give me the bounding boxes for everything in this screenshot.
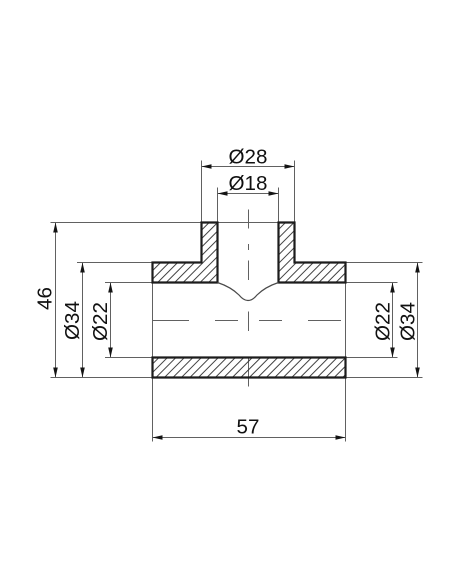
dimension line 46 bbox=[55, 223, 57, 378]
centerline horizontal (run axis) bbox=[153, 320, 342, 322]
dimension line Ø22 right bbox=[392, 283, 394, 358]
extension line 57 right bbox=[345, 378, 347, 442]
dimension line Ø28 bbox=[202, 166, 295, 168]
right end face edge (bore opening, thin) bbox=[345, 283, 347, 358]
extension line Ø22 right top bbox=[346, 282, 398, 284]
dimension line Ø34 left bbox=[82, 263, 84, 378]
extension line 57 left bbox=[152, 378, 154, 442]
extension line Ø28 right bbox=[294, 161, 296, 223]
extension line Ø28 left bbox=[201, 161, 203, 223]
left end face edge (bore opening, thin) bbox=[152, 283, 154, 358]
extension line Ø22 left bottom bbox=[105, 357, 153, 359]
extension line top (46 dim, across branch top) bbox=[51, 222, 295, 224]
svg-text:Ø28: Ø28 bbox=[229, 146, 268, 169]
svg-text:Ø34: Ø34 bbox=[61, 301, 84, 340]
branch bore funnel curve bbox=[218, 283, 279, 301]
svg-text:46: 46 bbox=[34, 287, 57, 310]
tee body left wall section (hatched L) bbox=[153, 223, 218, 283]
svg-text:Ø34: Ø34 bbox=[397, 302, 420, 341]
svg-text:57: 57 bbox=[237, 416, 260, 439]
tee body bottom wall section (hatched) bbox=[153, 358, 346, 378]
dimension line Ø34 right bbox=[417, 263, 419, 378]
extension line Ø34 left top bbox=[77, 262, 153, 264]
extension line Ø22 left top bbox=[105, 282, 153, 284]
dimension line 57 bbox=[153, 437, 346, 439]
extension line bottom-left (46 / Ø34) bbox=[51, 377, 153, 379]
extension line Ø18 left bbox=[217, 188, 219, 223]
dimension line Ø22 left bbox=[110, 283, 112, 358]
extension line Ø34 right top bbox=[346, 262, 423, 264]
extension line Ø18 right bbox=[278, 188, 280, 223]
centerline vertical (branch axis) bbox=[248, 210, 250, 387]
extension line Ø34 right bottom bbox=[346, 377, 423, 379]
tee body right wall section (hatched L) bbox=[279, 223, 346, 283]
dimension line Ø18 bbox=[218, 193, 279, 195]
svg-text:Ø22: Ø22 bbox=[89, 302, 112, 341]
svg-text:Ø22: Ø22 bbox=[372, 302, 395, 341]
svg-text:Ø18: Ø18 bbox=[229, 172, 268, 195]
extension line Ø22 right bottom bbox=[346, 357, 398, 359]
